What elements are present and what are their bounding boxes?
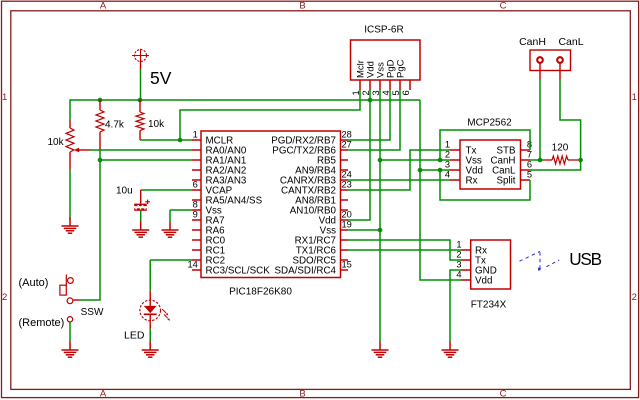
wire 5V drop to MCP Vdd and FT234X Vdd [420,100,461,280]
pin CANTX/RB2 right row 6 [341,189,349,191]
IC U2 MCP2562 body [460,140,521,189]
svg-text:24: 24 [342,170,352,180]
wire ICSP Vdd to PIC Vdd [348,90,370,220]
pin RB5 right row 3 [341,159,349,161]
node rail-ICSP-Vdd junction [368,98,373,103]
svg-text:1: 1 [456,239,461,249]
svg-text:2: 2 [456,249,461,259]
MCP2562 pin 3 Vdd [450,169,460,171]
pin RA5/AN4/SS left row 7 [192,199,201,201]
svg-text:A: A [100,1,107,12]
wire cap to ground [140,211,142,222]
svg-text:SSW: SSW [81,307,104,318]
svg-text:USB: USB [569,249,601,269]
wire FT Rx to PIC TX1 [348,249,461,251]
svg-text:PgC: PgC [395,59,406,78]
node RA1-4k7-switch junction [98,158,103,163]
pad (Remote) [67,317,72,322]
ground LED [149,342,151,351]
MCP2562 pin 7 CanH [521,159,531,161]
switch SSW [73,299,80,301]
MCP2562 pin 2 Vss [450,159,460,161]
node rail-4k7 junction [98,98,103,103]
pin RX1/RC7 right row 11 [341,239,349,241]
svg-text:20: 20 [342,210,352,220]
svg-text:2: 2 [2,292,7,303]
pin RC0 left row 11 [192,239,201,241]
pin RA2/AN2 left row 4 [192,169,201,171]
svg-text:8: 8 [193,200,198,210]
pin AN10/RB0 right row 8 [341,209,349,211]
svg-text:4.7k: 4.7k [105,120,125,131]
svg-text:A: A [100,388,107,399]
USB signal symbol [520,251,560,268]
svg-text:4: 4 [456,269,461,279]
pin AN9/RB4 right row 4 [341,169,349,171]
svg-text:Vdd: Vdd [475,276,492,287]
wire pot wiper to RA0 [90,149,192,151]
svg-text:ICSP-6R: ICSP-6R [364,25,403,36]
ground Vss8 [169,222,171,231]
ground pot [69,218,71,227]
pin RC3/SCL/SCK left row 14 [192,269,201,271]
wire MCLR net [140,139,180,141]
pin SDO/RC5 right row 13 [341,259,349,261]
svg-text:10k: 10k [48,137,65,148]
svg-text:B: B [299,1,305,12]
wire MCLR to ICSP pin1 [180,90,360,140]
svg-text:7: 7 [527,150,532,160]
pin RA7 left row 9 [192,219,201,221]
wire MCP Vdd row [420,169,450,171]
svg-text:MCP2562: MCP2562 [467,117,512,128]
svg-text:120: 120 [552,142,569,153]
svg-text:CanH: CanH [519,36,546,48]
ground remote [69,342,71,351]
svg-text:(Auto): (Auto) [19,277,49,289]
svg-text:6: 6 [193,180,198,190]
wire PIC Vss19 to ground net [348,229,380,231]
FT234X pin 2 Tx [461,259,471,261]
wire 4.7k to RA1 node [99,150,101,160]
ICSP pin 3 Vss [379,80,381,90]
ICSP pin 4 PgD [389,80,391,90]
svg-text:Split: Split [496,175,515,186]
wire 5V stem [140,69,142,100]
wire FT Tx to PIC RX1 [348,240,461,260]
node Vss-PIC junction [378,228,383,233]
svg-text:Rx: Rx [466,175,478,186]
wire remote pad to ground [69,322,71,342]
ground FT234X [449,342,451,351]
resistor 4.7k [99,100,101,110]
connector ICSP-6R body [351,40,421,80]
svg-text:C: C [500,388,507,399]
wire MCP Tx to PIC CANTX [348,150,450,190]
ICSP pin 2 Vdd [369,80,371,90]
svg-text:SDA/SDI/RC4: SDA/SDI/RC4 [274,265,336,276]
svg-text:15: 15 [342,260,352,270]
svg-text:3: 3 [456,259,461,269]
pin MCLR left row 1 [192,139,201,141]
node Vss-MCP junction [378,158,383,163]
svg-text:2: 2 [632,292,637,303]
pad CanH [537,57,543,63]
wire RA1 to switch SSW [80,160,100,300]
wire LED to ground [149,329,151,342]
potentiometer 10k [69,120,71,128]
pad CanL [557,57,563,63]
IC U3 FT234X body [471,240,511,289]
node Vdd-5V junction [418,168,423,173]
svg-text:C: C [500,1,507,12]
ground Vss net [379,342,381,351]
ICSP pin 5 PgC [399,80,401,90]
svg-text:2: 2 [445,150,450,160]
svg-text:14: 14 [187,260,197,270]
pin RA6 left row 10 [192,229,201,231]
svg-text:5V: 5V [150,68,172,88]
svg-text:RC3/SCL/SCK: RC3/SCL/SCK [206,265,271,276]
wire ICSP PgC to PIC PGC [348,90,400,150]
pin RC1 left row 12 [192,249,201,251]
connector CanH CanL body [530,50,571,71]
wire FT GND to ground [450,270,461,342]
svg-text:5: 5 [527,170,532,180]
wire ICSP Vss to ground [379,90,381,342]
wire pot bottom to ground [69,169,71,219]
node STB-Vss junction [438,158,443,163]
capacitor C 10u [140,190,142,204]
wire MCP Rx to PIC CANRX [348,179,450,181]
LED [149,291,151,306]
svg-text:10u: 10u [116,186,133,197]
svg-text:1: 1 [2,92,7,103]
wire Vss pin8 to ground [170,209,192,211]
ICSP pin 1 Mclr [359,80,361,90]
svg-text:6: 6 [401,90,411,95]
FT234X pin 4 Vdd [461,279,471,281]
pin Vss right row 10 [341,229,349,231]
svg-text:PIC18F26K80: PIC18F26K80 [229,287,292,298]
svg-text:3: 3 [445,160,450,170]
svg-text:(Remote): (Remote) [19,317,65,329]
wire RA1 net [100,159,192,161]
svg-text:1: 1 [632,92,637,103]
node CanH junction [538,158,543,163]
pin PGD/RX2/RB7 right row 1 [341,139,349,141]
svg-text:6: 6 [527,160,532,170]
pin VCAP left row 6 [192,189,201,191]
resistor 10k pullup [139,100,141,112]
pin TX1/RC6 right row 12 [341,249,349,251]
FT234X pin 1 Rx [461,249,471,251]
svg-text:1: 1 [445,140,450,150]
svg-text:28: 28 [342,130,352,140]
pin Vdd right row 9 [341,219,349,221]
resistor 120 termination [544,159,552,161]
svg-text:LED: LED [124,329,145,341]
ground cap [140,222,142,231]
wire 5V rail [70,100,420,120]
wire ICSP PgD to PIC PGD [348,90,390,140]
wire CanH net [530,159,544,161]
IC U1 PIC18F26K80 body [201,131,341,278]
svg-text:27: 27 [342,140,352,150]
wire MCP Vss row [380,159,450,161]
MCP2562 pin 5 Split [521,179,531,181]
pin RA1/AN1 left row 3 [192,159,201,161]
svg-text:23: 23 [342,180,352,190]
svg-text:B: B [299,388,305,399]
wire Split branch [440,170,530,200]
wire RC2 to LED [150,259,192,261]
pin PGC/TX2/RB6 right row 2 [341,149,349,151]
svg-text:9: 9 [193,210,198,220]
svg-text:4: 4 [445,170,450,180]
svg-text:1: 1 [351,90,361,95]
pin CANRX/RB3 right row 5 [341,179,349,181]
MCP2562 pin 8 STB [521,149,531,151]
MCP2562 pin 6 CanL [521,169,531,171]
MCP2562 pin 1 Tx [450,149,460,151]
svg-text:10k: 10k [148,119,165,130]
pin RA3/AN3 left row 5 [192,179,201,181]
pin RA0/AN0 left row 2 [192,149,201,151]
svg-text:FT234X: FT234X [471,300,507,311]
node MCLR junction [178,138,183,143]
node CanL-resistor junction [578,158,583,163]
node rail-10k junction [138,98,143,103]
wire STB branch [440,130,530,160]
svg-text:1: 1 [193,130,198,140]
pin Vss left row 8 [192,209,201,211]
svg-text:19: 19 [342,220,352,230]
wire CanL net [579,159,581,161]
pin AN8/RB1 right row 7 [341,199,349,201]
MCP2562 pin 4 Rx [450,179,460,181]
FT234X pin 3 GND [461,269,471,271]
svg-text:CanL: CanL [558,36,583,48]
node Vdd-Split junction [438,168,443,173]
pin RC2 left row 13 [192,259,201,261]
wire VCAP net [141,189,192,191]
pin SDA/SDI/RC4 right row 14 [341,269,349,271]
ICSP pin 6 [409,80,411,90]
supply symbol +5V [135,50,147,62]
